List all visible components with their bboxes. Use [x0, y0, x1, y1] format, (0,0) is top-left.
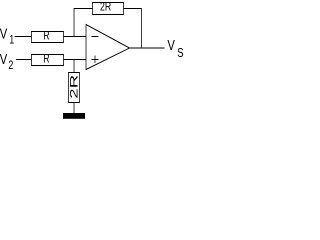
svg-text:R: R — [43, 31, 49, 43]
svg-text:2R: 2R — [68, 75, 80, 99]
svg-text:V: V — [0, 25, 7, 42]
svg-text:V: V — [0, 50, 7, 67]
svg-text:S: S — [177, 47, 184, 61]
svg-text:2: 2 — [8, 59, 13, 73]
svg-text:1: 1 — [9, 33, 14, 47]
svg-text:R: R — [43, 54, 49, 66]
svg-text:2R: 2R — [100, 1, 111, 13]
svg-text:V: V — [167, 37, 175, 54]
